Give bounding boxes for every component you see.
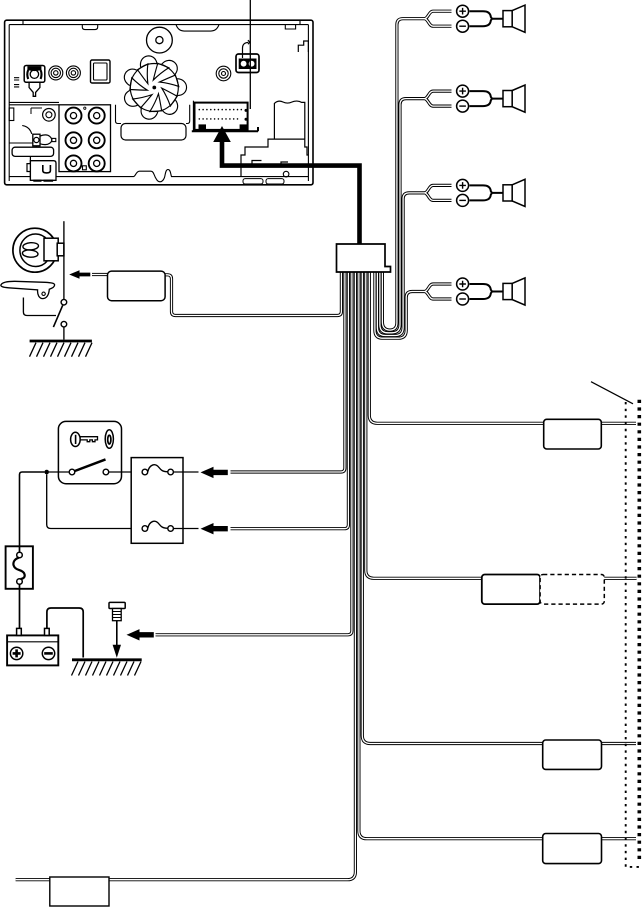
battery plus <box>10 647 22 659</box>
bottom trim tabs left <box>33 180 53 182</box>
junction node <box>44 470 49 475</box>
pigtail plug <box>9 142 33 144</box>
speaker wire 3 <box>377 193 424 336</box>
leader line to connector <box>249 0 251 109</box>
harness connector block <box>337 244 391 272</box>
arrow to battery wire <box>201 523 228 534</box>
bolt arrow shaft <box>116 621 118 646</box>
wire: fuse holder leads <box>19 546 21 628</box>
lower-left bracket <box>27 156 30 180</box>
wire: fuse to arrow <box>173 528 198 530</box>
speaker (-) terminal <box>457 20 469 32</box>
square port <box>91 60 111 83</box>
left section divider <box>9 102 59 104</box>
vehicle boundary heavy dotted line <box>637 400 641 862</box>
speaker <box>503 11 512 27</box>
remote box <box>30 161 56 181</box>
speaker leads <box>470 284 504 299</box>
wire: key switch to fuse box <box>109 471 142 473</box>
antenna jack <box>14 66 45 97</box>
speaker wire 2 <box>380 99 425 333</box>
preout RCA panel <box>59 105 111 172</box>
speaker (-) terminal <box>457 293 469 305</box>
wire: battery constant (yellow) <box>231 272 349 529</box>
speaker <box>503 283 512 299</box>
thick cable from unit connector <box>222 139 360 245</box>
speaker wire 4 <box>375 272 425 338</box>
speaker leads <box>470 185 504 200</box>
RCA jack <box>66 66 80 80</box>
knob circle above fan <box>147 27 173 53</box>
ground bolt <box>109 602 125 608</box>
label box lead 2 (dashed extension) <box>540 575 604 605</box>
wire: junction to lower fuse <box>47 474 142 528</box>
fan shroud tray <box>116 105 122 124</box>
preout RCA jack <box>89 132 105 148</box>
wire stub to antenna relay box <box>92 273 108 276</box>
chassis bracket wavy top <box>274 101 304 139</box>
wire: switch to ground <box>63 327 65 340</box>
motor antenna symbol <box>13 228 57 272</box>
arrow up at unit connector <box>213 126 231 142</box>
antenna mount fin <box>1 281 55 298</box>
preout RCA jack <box>89 108 105 124</box>
wire: lead to vehicle 2 <box>366 272 637 578</box>
preout RCA jack <box>66 132 82 148</box>
preout RCA jack <box>89 155 105 171</box>
label box bottom left <box>50 877 109 906</box>
head unit top notch tab <box>82 25 97 30</box>
head unit top scallop <box>176 25 219 32</box>
preout RCA jack <box>66 155 82 171</box>
wire: junction to key switch <box>49 471 69 473</box>
switch contact bottom <box>61 321 67 327</box>
wire: ignition ACC (red) <box>231 272 345 472</box>
label box lead 4 <box>543 834 602 864</box>
ground bar (battery) <box>72 658 142 661</box>
ignition key switch box <box>58 421 121 483</box>
top corner ticks <box>23 20 300 24</box>
speaker (+) terminal <box>457 85 469 97</box>
wire: power antenna control (blue) <box>165 272 341 316</box>
key icon <box>71 432 81 446</box>
wire: junction to fuse holder <box>20 472 45 546</box>
RCA jack <box>49 66 63 80</box>
switch lever <box>53 305 62 327</box>
USB port icon <box>236 54 259 73</box>
speaker leads <box>470 91 504 106</box>
head unit rear panel outline <box>5 20 313 185</box>
wire: fin to switch <box>23 298 56 316</box>
speaker (+) terminal <box>457 5 469 17</box>
arrow to power antenna <box>69 270 90 279</box>
wire: bottom accessory lead <box>16 272 356 880</box>
speaker <box>503 185 512 201</box>
label box lead 1 <box>544 419 602 449</box>
speaker (+) terminal <box>457 278 469 290</box>
battery minus <box>42 647 54 659</box>
small ring connector below divider <box>43 109 56 122</box>
small dot and square on panel <box>84 107 86 109</box>
switch contact top <box>61 299 67 305</box>
speaker (-) terminal <box>457 100 469 112</box>
fuse holder element <box>13 558 24 579</box>
small jack right of fan <box>216 66 231 81</box>
speaker (+) terminal <box>457 179 469 191</box>
key switch lever <box>75 459 106 471</box>
ground symbol (antenna) <box>30 340 92 343</box>
wire: lead to vehicle 1 <box>369 272 636 423</box>
wire: antenna vertical <box>63 221 65 299</box>
preout RCA jack <box>66 108 82 124</box>
label box lead 3 <box>543 740 602 769</box>
bottom trim tabs <box>243 179 263 184</box>
right edge inner notch <box>298 41 308 52</box>
wire: ground (black) <box>156 272 352 635</box>
antenna control label box <box>108 271 166 301</box>
vehicle boundary dotted line <box>626 402 642 867</box>
speaker wire 1 <box>382 19 424 330</box>
fuse box <box>131 458 183 544</box>
fuse element <box>142 469 148 475</box>
battery <box>7 635 58 665</box>
left edge tab <box>9 108 14 121</box>
key switch contacts <box>69 469 75 475</box>
fuse element <box>142 526 148 532</box>
wire: fuse to arrow <box>173 471 198 473</box>
wire: battery minus to ground <box>47 608 83 658</box>
leader line to boundary <box>591 382 633 404</box>
head unit bottom inner edge with notches <box>9 170 308 182</box>
speaker <box>503 91 512 107</box>
arrow to ground bolt <box>127 629 154 640</box>
chassis steps <box>241 139 308 177</box>
main harness connector on unit <box>195 103 248 130</box>
cooling fan <box>124 56 186 119</box>
speaker leads <box>470 11 504 26</box>
inline fuse holder <box>6 546 33 589</box>
wire: lead to vehicle 3 <box>362 272 636 744</box>
label box lead 2 (solid) <box>482 575 540 605</box>
wire: lead to vehicle 4 <box>359 272 636 839</box>
lower-left bar <box>12 147 54 156</box>
keyhole icon <box>105 430 113 449</box>
speaker (-) terminal <box>457 194 469 206</box>
arrow to ACC wire <box>201 467 228 478</box>
head unit top right notch <box>285 25 295 29</box>
